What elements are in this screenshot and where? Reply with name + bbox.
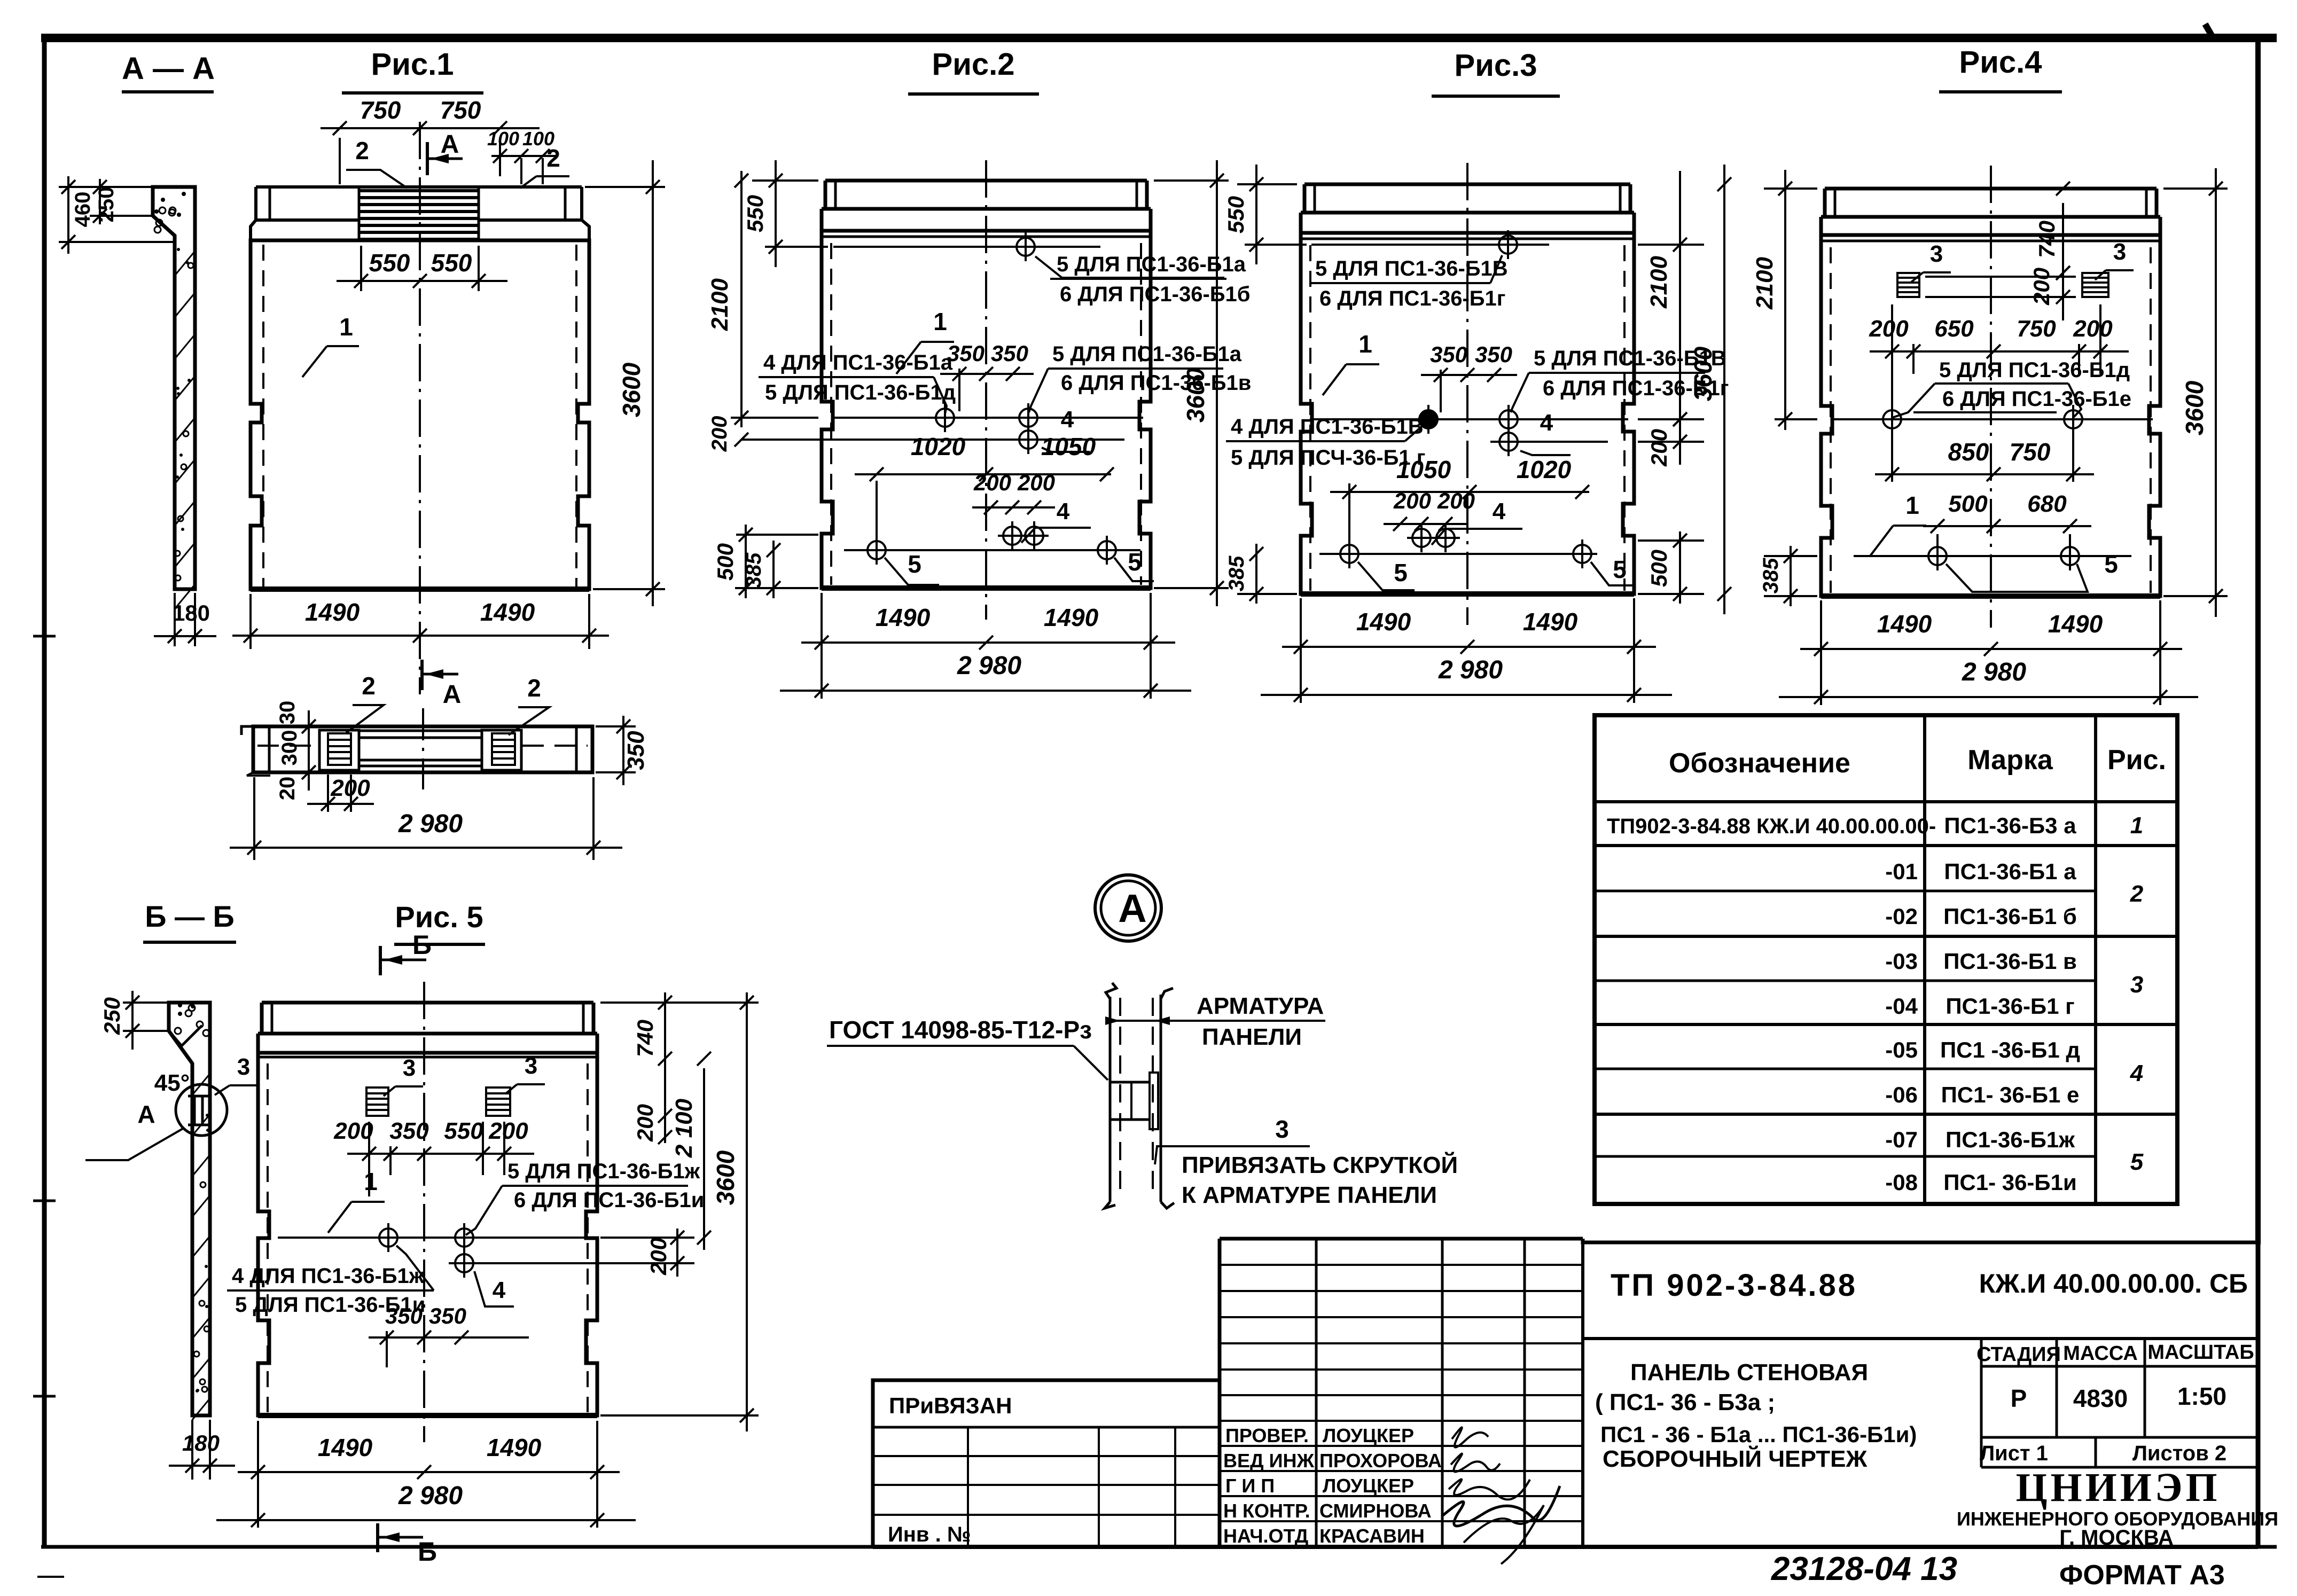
svg-text:350: 350: [947, 341, 985, 366]
svg-text:6 ДЛЯ ПС1-36-Б1е: 6 ДЛЯ ПС1-36-Б1е: [1942, 387, 2131, 411]
svg-text:2: 2: [355, 137, 369, 165]
svg-text:100: 100: [487, 128, 519, 150]
svg-text:ПС1- 36-Б1 е: ПС1- 36-Б1 е: [1941, 1082, 2080, 1107]
svg-text:20: 20: [276, 777, 299, 801]
svg-text:ПС1-36-Б1 б: ПС1-36-Б1 б: [1943, 904, 2077, 929]
Рис.5 panel outline: [262, 1001, 593, 1005]
svg-text:МАССА: МАССА: [2063, 1342, 2138, 1365]
svg-text:460: 460: [71, 192, 95, 228]
Б-Б chamfer line 45: [169, 1026, 202, 1046]
Рис.1 section mark А top: [426, 142, 429, 175]
svg-text:А: А: [137, 1100, 155, 1128]
svg-text:Рис. 5: Рис. 5: [395, 900, 483, 934]
Рис.5 dim 1490 1490: [257, 1421, 259, 1485]
svg-text:350: 350: [389, 1118, 429, 1144]
svg-text:СБОРОЧНЫЙ ЧЕРТЕЖ: СБОРОЧНЫЙ ЧЕРТЕЖ: [1603, 1445, 1867, 1472]
Б-Б detail circle А: [176, 1084, 227, 1136]
svg-text:-01: -01: [1885, 859, 1918, 884]
plan dim 200: [327, 774, 329, 812]
Рис.3 embed 4 below: [1490, 441, 1608, 443]
svg-text:200: 200: [1646, 429, 1671, 467]
Рис.3 dim 3600 right: [1723, 165, 1725, 614]
svg-text:СТАДИЯ: СТАДИЯ: [1976, 1343, 2061, 1366]
svg-text:1050: 1050: [1396, 456, 1451, 483]
Рис.2 dim 550 left: [752, 179, 818, 182]
svg-text:30: 30: [276, 701, 299, 725]
svg-text:4: 4: [1540, 410, 1553, 436]
svg-text:250: 250: [99, 997, 124, 1035]
Рис.4 plate leader lines: [1925, 276, 2076, 278]
svg-text:3: 3: [525, 1053, 537, 1079]
svg-text:180: 180: [173, 600, 210, 625]
svg-text:1490: 1490: [318, 1434, 373, 1461]
svg-text:5 ДЛЯ ПС1-36-Б1д: 5 ДЛЯ ПС1-36-Б1д: [765, 381, 956, 404]
svg-text:5 ДЛЯ ПС1-36-Б1ж: 5 ДЛЯ ПС1-36-Б1ж: [507, 1160, 700, 1183]
svg-text:1: 1: [339, 313, 353, 341]
svg-text:К АРМАТУРЕ ПАНЕЛИ: К АРМАТУРЕ ПАНЕЛИ: [1182, 1182, 1437, 1208]
А-А wall hatching: [175, 251, 195, 276]
svg-text:200: 200: [1437, 488, 1475, 513]
Рис.3 dim 2100 right: [1638, 244, 1704, 246]
Рис.1 dim 750 750: [339, 138, 341, 184]
svg-text:2100: 2100: [1752, 257, 1778, 310]
svg-text:2 980: 2 980: [398, 1482, 463, 1510]
svg-text:Рис.1: Рис.1: [371, 47, 454, 82]
А-А wall section outline: [153, 187, 195, 589]
svg-text:ПАНЕЛЬ СТЕНОВАЯ: ПАНЕЛЬ СТЕНОВАЯ: [1630, 1359, 1868, 1386]
svg-text:740: 740: [632, 1020, 658, 1057]
plan dim 350: [596, 725, 636, 727]
svg-text:750: 750: [2010, 438, 2051, 466]
svg-text:ПРИВЯЗАТЬ СКРУТКОЙ: ПРИВЯЗАТЬ СКРУТКОЙ: [1182, 1151, 1458, 1178]
svg-text:200: 200: [646, 1238, 671, 1276]
Рис.3 dim 2980: [1261, 694, 1672, 696]
plan dashed centerline: [257, 745, 318, 747]
Рис.4 dim 2980: [1779, 696, 2198, 698]
svg-text:2: 2: [546, 144, 560, 172]
svg-text:ГОСТ 14098-85-Т12-Рз: ГОСТ 14098-85-Т12-Рз: [829, 1016, 1092, 1044]
Рис.4 embed plate 3 left: [1897, 273, 1919, 297]
Рис.1 panel hat: [256, 185, 582, 189]
svg-text:ПС1-36-Б1 а: ПС1-36-Б1 а: [1944, 859, 2076, 884]
parts table frame: [1595, 715, 2177, 1204]
svg-text:200: 200: [1393, 488, 1431, 513]
Рис.3 dim 385 left: [1237, 593, 1297, 595]
svg-text:200: 200: [333, 1118, 373, 1144]
svg-text:-07: -07: [1885, 1127, 1918, 1152]
Рис.5 section mark Б top: [379, 946, 382, 975]
svg-text:Марка: Марка: [1967, 745, 2053, 776]
svg-text:500: 500: [713, 543, 738, 581]
Рис.5 centerline: [423, 982, 425, 1442]
Рис.2 dim 2100 left: [731, 417, 818, 419]
Рис.2 dim 2980: [780, 690, 1191, 692]
svg-text:-08: -08: [1885, 1170, 1918, 1195]
svg-text:5: 5: [2104, 550, 2118, 578]
svg-text:3: 3: [1930, 241, 1943, 267]
Рис.3 dim 500 right: [1638, 539, 1704, 542]
svg-text:-05: -05: [1885, 1037, 1918, 1062]
svg-text:Н КОНТР.: Н КОНТР.: [1223, 1500, 1310, 1522]
svg-text:Б: Б: [412, 930, 432, 960]
Рис.3 embeds 4 pair: [1412, 529, 1431, 547]
svg-text:2100: 2100: [1646, 256, 1672, 309]
svg-text:Б — Б: Б — Б: [145, 899, 235, 933]
svg-text:350: 350: [991, 341, 1028, 366]
svg-text:2 100: 2 100: [671, 1098, 697, 1158]
Рис.4 panel outline: [1825, 187, 2157, 191]
Рис.2 dim 1490 1490: [821, 593, 823, 651]
Рис.4 dim 385 left: [1764, 555, 1817, 557]
svg-text:ЛОУЦКЕР: ЛОУЦКЕР: [1323, 1425, 1414, 1446]
svg-text:1: 1: [933, 308, 947, 335]
svg-text:4 ДЛЯ ПС1-36-Б1В: 4 ДЛЯ ПС1-36-Б1В: [1231, 415, 1424, 439]
svg-text:МАСШТАБ: МАСШТАБ: [2147, 1341, 2254, 1364]
Рис.5 embed plate 3 left: [366, 1088, 388, 1116]
svg-text:5 ДЛЯ ПС1-36-Б1а: 5 ДЛЯ ПС1-36-Б1а: [1052, 342, 1242, 366]
title block signature grid: [1315, 1239, 1318, 1547]
svg-text:1490: 1490: [2048, 610, 2103, 638]
svg-text:ПРОВЕР.: ПРОВЕР.: [1225, 1425, 1309, 1446]
svg-text:750: 750: [2017, 316, 2056, 342]
Рис.3 bottom embeds 5: [1319, 553, 1597, 555]
стадия масса масштаб header: [1980, 1339, 1983, 1467]
svg-text:500: 500: [1646, 550, 1671, 587]
svg-text:Г. МОСКВА: Г. МОСКВА: [2059, 1526, 2173, 1550]
Рис.5 dim 3600 right: [600, 1414, 759, 1417]
sheet border frame: [41, 34, 2277, 42]
svg-text:385: 385: [1759, 558, 1783, 593]
svg-text:6 ДЛЯ ПС1-36-Б1в: 6 ДЛЯ ПС1-36-Б1в: [1061, 371, 1251, 395]
title block outer frame: [873, 1380, 1220, 1547]
Рис.4 centerline: [1990, 166, 1992, 628]
svg-text:3600: 3600: [618, 362, 645, 417]
Б-Б dim 250: [123, 1002, 169, 1004]
А-А dim 180: [174, 593, 176, 646]
svg-text:6 ДЛЯ ПС1-36-Б1и: 6 ДЛЯ ПС1-36-Б1и: [514, 1188, 704, 1212]
svg-text:385: 385: [1225, 556, 1248, 591]
svg-text:2 980: 2 980: [1438, 656, 1503, 684]
svg-text:1:50: 1:50: [2177, 1382, 2226, 1410]
Рис.2 bottom embeds 5: [844, 549, 1140, 551]
svg-text:Рис.4: Рис.4: [1959, 45, 2042, 80]
Рис.4 mid embeds row: [1832, 418, 2153, 420]
svg-text:750: 750: [440, 96, 481, 124]
svg-text:4: 4: [1493, 498, 1506, 525]
svg-text:ТП902-3-84.88 КЖ.И 40.00.00.0: ТП902-3-84.88 КЖ.И 40.00.00.00-: [1607, 815, 1936, 838]
svg-text:АРМАТУРА: АРМАТУРА: [1197, 993, 1324, 1019]
svg-text:23128-04 13: 23128-04 13: [1771, 1551, 1957, 1587]
svg-text:1020: 1020: [1517, 456, 1572, 483]
Рис.1 horizontal section (plan) outline: [253, 726, 592, 772]
svg-text:200: 200: [632, 1104, 658, 1142]
svg-text:Обозначение: Обозначение: [1669, 748, 1850, 779]
svg-text:-03: -03: [1885, 949, 1918, 974]
svg-text:250: 250: [95, 187, 118, 223]
svg-text:-04: -04: [1885, 993, 1918, 1019]
Б-Б wall section outline: [169, 1003, 210, 1415]
svg-text:1: 1: [1905, 491, 1919, 519]
svg-text:2100: 2100: [707, 278, 733, 331]
svg-text:1: 1: [2130, 812, 2143, 839]
svg-text:550: 550: [431, 249, 472, 277]
svg-text:4 ДЛЯ ПС1-36-Б1ж: 4 ДЛЯ ПС1-36-Б1ж: [232, 1264, 425, 1288]
svg-text:5 ДЛЯ ПС1-36-Б1В: 5 ДЛЯ ПС1-36-Б1В: [1315, 257, 1508, 280]
plan embed plate 2 left: [319, 730, 359, 770]
А-А dim 250: [90, 215, 153, 217]
svg-text:200: 200: [708, 416, 731, 452]
svg-text:385: 385: [742, 552, 765, 588]
Рис.5 mid embeds row: [278, 1237, 585, 1239]
Рис.5 section mark Б bottom: [376, 1523, 379, 1552]
svg-text:А — А: А — А: [122, 51, 215, 86]
svg-text:550: 550: [743, 195, 768, 232]
svg-text:3: 3: [2113, 239, 2126, 265]
svg-text:ПС1 -36-Б1 д: ПС1 -36-Б1 д: [1940, 1037, 2080, 1062]
svg-text:2: 2: [2130, 881, 2144, 907]
svg-text:1020: 1020: [911, 433, 966, 460]
svg-text:1050: 1050: [1041, 433, 1096, 460]
svg-text:3600: 3600: [1689, 346, 1717, 401]
Рис.4 embed plate 3 right: [2082, 273, 2108, 297]
svg-text:2 980: 2 980: [957, 652, 1021, 680]
Рис.4 dim 2100 left: [1764, 187, 1817, 190]
svg-text:200: 200: [1869, 316, 1909, 342]
Рис.2 mid embeds row: [831, 417, 1143, 419]
svg-text:200: 200: [488, 1118, 528, 1144]
svg-text:4 ДЛЯ ПС1-36-Б1а: 4 ДЛЯ ПС1-36-Б1а: [763, 351, 953, 374]
Рис.1 keyed joint lamination: [358, 187, 361, 240]
svg-text:1490: 1490: [1044, 604, 1099, 631]
Рис.1 dim 3600: [585, 186, 665, 188]
Рис.5 dim 2980: [216, 1519, 636, 1521]
svg-text:3600: 3600: [712, 1150, 739, 1205]
svg-text:ПС1 - 36 - Б1а ... ПС1-36-Б1и: ПС1 - 36 - Б1а ... ПС1-36-Б1и): [1600, 1422, 1917, 1447]
plan dim 2980: [253, 777, 255, 860]
signatures squiggles: [1452, 1427, 1488, 1447]
svg-text:740: 740: [2034, 221, 2059, 258]
svg-text:( ПС1- 36 - Б3а ;: ( ПС1- 36 - Б3а ;: [1595, 1389, 1775, 1415]
svg-text:1490: 1490: [480, 598, 535, 626]
Рис.2 embeds 4 pair: [1003, 527, 1021, 545]
svg-text:3: 3: [2130, 972, 2143, 998]
svg-text:Б: Б: [418, 1537, 437, 1567]
svg-text:ПС1-36-Б1 в: ПС1-36-Б1 в: [1943, 949, 2077, 974]
Рис.2 embed 5/6 top: [833, 246, 1100, 248]
svg-text:Рис.3: Рис.3: [1455, 48, 1537, 83]
detail wall dashed rebars: [1119, 998, 1121, 1200]
svg-text:1490: 1490: [1877, 610, 1932, 638]
svg-text:2: 2: [362, 672, 376, 700]
detail А circle mark: [1095, 875, 1161, 941]
svg-text:4: 4: [1061, 406, 1074, 433]
svg-text:-06: -06: [1885, 1082, 1918, 1107]
svg-text:ФОРМАТ А3: ФОРМАТ А3: [2059, 1560, 2225, 1591]
Б-Б wall hatching: [192, 1074, 210, 1095]
svg-text:4: 4: [493, 1277, 506, 1303]
svg-text:Инв . №: Инв . №: [888, 1523, 971, 1546]
svg-text:180: 180: [182, 1430, 220, 1456]
svg-text:3600: 3600: [2181, 380, 2208, 435]
svg-text:Р: Р: [2011, 1384, 2027, 1412]
Рис.2 label 5/6 for top embed: [1035, 256, 1224, 278]
svg-text:350: 350: [623, 731, 649, 770]
Рис.2 dim 385 left: [735, 587, 818, 589]
svg-text:1490: 1490: [1356, 608, 1411, 636]
svg-text:4830: 4830: [2073, 1384, 2128, 1412]
svg-text:1490: 1490: [305, 598, 360, 626]
svg-text:550: 550: [369, 249, 410, 277]
Рис.3 panel outline: [1304, 183, 1630, 186]
svg-text:650: 650: [1934, 316, 1974, 342]
svg-text:1: 1: [364, 1168, 378, 1195]
привязан box: [871, 1380, 874, 1547]
svg-text:5: 5: [1128, 548, 1142, 576]
Рис.1 vertical centerline: [419, 122, 421, 694]
Рис.2 dim 3600 right: [1154, 179, 1229, 182]
svg-text:6 ДЛЯ ПС1-36-Б1б: 6 ДЛЯ ПС1-36-Б1б: [1060, 283, 1251, 306]
Рис.2 centerline: [985, 160, 987, 620]
svg-text:6 ДЛЯ ПС1-36-Б1г: 6 ДЛЯ ПС1-36-Б1г: [1319, 287, 1505, 310]
svg-text:4: 4: [2130, 1060, 2143, 1086]
svg-text:2 980: 2 980: [1962, 658, 2026, 686]
Рис.3 mid embeds row: [1310, 418, 1628, 420]
svg-text:Г И П: Г И П: [1225, 1475, 1275, 1497]
svg-text:ПС1- 36-Б1и: ПС1- 36-Б1и: [1943, 1170, 2077, 1195]
detail wall fragment edges: [1106, 983, 1116, 999]
Рис.2 panel outline: [825, 179, 1147, 183]
Рис.2 embed 4 below: [741, 439, 1124, 441]
svg-text:200: 200: [973, 470, 1011, 495]
svg-text:550: 550: [1223, 196, 1248, 233]
svg-text:850: 850: [1948, 438, 1989, 466]
svg-text:4: 4: [1057, 498, 1070, 525]
svg-text:СМИРНОВА: СМИРНОВА: [1319, 1500, 1432, 1522]
svg-text:1: 1: [1358, 330, 1372, 358]
svg-text:3: 3: [1275, 1115, 1289, 1143]
Рис.1 panel body outline: [251, 240, 589, 589]
svg-text:ЛОУЦКЕР: ЛОУЦКЕР: [1323, 1475, 1414, 1497]
Рис.1 dim 1490 1490: [249, 594, 252, 649]
svg-text:750: 750: [360, 96, 401, 124]
svg-text:А: А: [443, 680, 462, 709]
svg-text:5: 5: [1394, 559, 1408, 586]
svg-text:680: 680: [2027, 491, 2067, 517]
svg-text:350: 350: [385, 1303, 423, 1328]
svg-text:200: 200: [1017, 470, 1055, 495]
svg-text:5: 5: [2130, 1149, 2144, 1175]
plan vertical centerline: [422, 708, 424, 789]
svg-text:500: 500: [1948, 491, 1988, 517]
svg-text:ВЕД ИНЖ: ВЕД ИНЖ: [1223, 1450, 1315, 1472]
svg-text:350: 350: [1430, 342, 1467, 367]
Б-Б embed H profile: [188, 1095, 209, 1098]
svg-text:ЦНИИЭП: ЦНИИЭП: [2015, 1465, 2220, 1510]
Рис.1 dim 100 100: [520, 158, 522, 184]
svg-text:-02: -02: [1885, 904, 1918, 929]
Рис.5 dim 200 right lower: [600, 1262, 694, 1264]
plan joint lines: [359, 730, 482, 732]
Рис.5 embed plate 3 right: [486, 1088, 510, 1116]
Рис.5 dim 2100 right: [600, 1237, 694, 1239]
svg-text:3600: 3600: [1182, 367, 1209, 423]
svg-text:200: 200: [2073, 316, 2113, 342]
svg-text:ТП 902-3-84.88: ТП 902-3-84.88: [1611, 1268, 1857, 1303]
Рис.1 dim 550 550: [360, 246, 362, 291]
лист листов row: [1981, 1436, 2258, 1439]
Б-Б concrete dots top block: [175, 1028, 181, 1034]
Рис.5 dim 740 right: [600, 1002, 759, 1004]
svg-text:1490: 1490: [487, 1434, 542, 1461]
Рис.2 dim 200 left vertical: [735, 433, 748, 447]
svg-text:5: 5: [1613, 556, 1627, 583]
svg-text:1490: 1490: [1523, 608, 1578, 636]
svg-text:1490: 1490: [876, 604, 931, 631]
svg-text:2 980: 2 980: [398, 810, 463, 838]
svg-text:А: А: [1118, 886, 1146, 930]
svg-text:350: 350: [429, 1303, 466, 1328]
svg-text:ПРиВЯЗАН: ПРиВЯЗАН: [889, 1393, 1012, 1418]
svg-text:200: 200: [330, 775, 370, 801]
svg-text:А: А: [441, 130, 459, 159]
svg-text:Листов 2: Листов 2: [2132, 1442, 2226, 1465]
svg-text:350: 350: [1475, 342, 1512, 367]
svg-text:5: 5: [908, 550, 921, 578]
svg-text:Рис.: Рис.: [2107, 745, 2166, 776]
Рис.1 inner dashed edges: [262, 245, 264, 586]
detail arrow Арматура панели: [1114, 1020, 1325, 1022]
Рис.4 bottom embeds 5: [1854, 555, 2131, 557]
svg-text:ПАНЕЛИ: ПАНЕЛИ: [1202, 1024, 1302, 1050]
Рис.3 dim 550 left: [1237, 183, 1297, 185]
svg-text:3: 3: [403, 1055, 416, 1081]
svg-text:ПС1-36-Б3 а: ПС1-36-Б3 а: [1944, 813, 2076, 838]
Рис.3 dim 200 right: [1638, 418, 1704, 420]
plan embed plate 2 right: [482, 730, 521, 770]
Б-Б dim 180: [191, 1420, 193, 1480]
А-А dim 460: [59, 186, 153, 188]
svg-text:НАЧ.ОТД: НАЧ.ОТД: [1223, 1525, 1308, 1547]
plan section mark А bottom: [420, 660, 424, 690]
svg-text:ПС1-36-Б1 г: ПС1-36-Б1 г: [1946, 993, 2074, 1019]
Рис.4 dim 1490 1490: [1820, 600, 1822, 657]
Рис.3 dim 1490 1490: [1300, 598, 1302, 655]
svg-text:ПС1-36-Б1ж: ПС1-36-Б1ж: [1946, 1127, 2075, 1152]
А-А concrete dots in top block: [169, 209, 175, 216]
svg-text:200: 200: [2029, 268, 2054, 306]
Рис.2 dim 500 left: [736, 534, 818, 536]
svg-text:550: 550: [444, 1118, 483, 1144]
Рис.3 centerline: [1466, 163, 1468, 625]
svg-text:5 ДЛЯ ПС1-36-Б1д: 5 ДЛЯ ПС1-36-Б1д: [1939, 358, 2130, 382]
svg-text:Рис.2: Рис.2: [932, 47, 1015, 82]
svg-text:ПРОХОРОВА: ПРОХОРОВА: [1319, 1450, 1442, 1472]
svg-text:КРАСАВИН: КРАСАВИН: [1319, 1525, 1425, 1547]
svg-text:3: 3: [237, 1054, 250, 1080]
svg-text:300: 300: [278, 730, 301, 766]
svg-text:Лист 1: Лист 1: [1980, 1442, 2048, 1465]
Рис.4 dim 3600 right: [2163, 187, 2228, 190]
svg-text:КЖ.И 40.00.00.00. СБ: КЖ.И 40.00.00.00. СБ: [1979, 1269, 2248, 1298]
detail splice plates: [1110, 1081, 1150, 1084]
Рис.3 embed 5/6 top: [1311, 244, 1549, 246]
Рис.5 embed 4 below: [449, 1262, 662, 1264]
svg-text:2: 2: [527, 674, 541, 702]
